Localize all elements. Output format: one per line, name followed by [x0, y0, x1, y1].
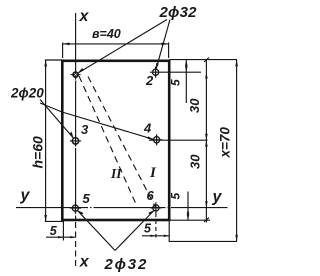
svg-text:2ϕ20: 2ϕ20 — [10, 86, 44, 101]
bottom right 5 dimension: right edge extension — [168, 221, 170, 242]
hole 2 — [150, 67, 161, 78]
svg-text:30: 30 — [188, 154, 203, 169]
y axis — [16, 207, 228, 209]
x axis — [75, 13, 77, 221]
dimension b=40 line — [63, 43, 168, 45]
hole 1 — [71, 70, 81, 80]
svg-text:5: 5 — [144, 221, 152, 235]
svg-text:у: у — [212, 189, 223, 206]
hole 5 — [70, 203, 81, 214]
plate outline — [62, 61, 169, 220]
hole 2 centerline extension right — [161, 71, 201, 73]
svg-text:6: 6 — [147, 188, 155, 203]
svg-text:30: 30 — [187, 98, 202, 113]
leader to hole 2 — [156, 20, 170, 70]
b=40 arrows — [63, 43, 70, 46]
svg-text:II: II — [110, 166, 122, 181]
hole 4 centerline extension right — [149, 139, 208, 141]
svg-text:5: 5 — [50, 224, 58, 238]
bottom left 5 dimension: left edge extension — [62, 221, 64, 241]
svg-text:x: x — [79, 253, 90, 270]
svg-text:h=60: h=60 — [30, 136, 46, 169]
right extension, top edge level — [169, 59, 237, 61]
leader to hole 6 — [115, 210, 154, 250]
svg-text:в=40: в=40 — [92, 27, 121, 41]
svg-text:2: 2 — [145, 73, 154, 88]
hole 6 — [150, 202, 161, 213]
tick at bottom edge crossing — [204, 218, 209, 223]
svg-text:I: I — [149, 165, 157, 181]
dimension 5 (right, above y axis) line — [187, 192, 189, 221]
dashed section line I — [88, 77, 156, 208]
right extension, bottom edge level — [169, 219, 210, 221]
bottom left 5 dimension line — [46, 236, 76, 238]
leader to hole 4 — [40, 103, 154, 139]
svg-text:x=70: x=70 — [218, 127, 233, 159]
svg-text:5: 5 — [169, 79, 183, 86]
svg-text:4: 4 — [143, 121, 152, 136]
hole 4 — [151, 134, 162, 145]
dimension 30/30 chain line — [205, 60, 207, 223]
h=60 arrows — [44, 60, 47, 67]
hole 3 — [70, 135, 81, 146]
svg-text:5: 5 — [83, 191, 91, 206]
b=40 extension left — [62, 43, 64, 59]
dimension x=70 line — [236, 60, 238, 242]
tick at chain top — [204, 58, 209, 63]
leader to hole 1 — [79, 20, 168, 73]
svg-text:2ϕ32: 2ϕ32 — [104, 256, 149, 273]
dimension 5 (top right) line — [185, 60, 187, 103]
svg-text:2ϕ32: 2ϕ32 — [159, 4, 198, 21]
right extension, x=70 bottom reference — [169, 240, 237, 242]
hole 6 centerline dashed below — [155, 213, 157, 238]
dashed section line II — [79, 76, 137, 205]
svg-text:у: у — [20, 187, 31, 204]
h=60 bottom extension — [45, 220, 63, 222]
h=60 top extension — [45, 59, 62, 61]
bottom right 5 dimension line — [142, 235, 169, 237]
svg-text:5: 5 — [169, 193, 183, 200]
dimension h=60 line — [45, 60, 47, 222]
svg-text:3: 3 — [81, 122, 89, 137]
leader to hole 3 — [40, 100, 74, 139]
b=40 extension right — [168, 43, 170, 59]
leader to hole 5 — [77, 210, 115, 250]
svg-text:x: x — [79, 8, 90, 25]
